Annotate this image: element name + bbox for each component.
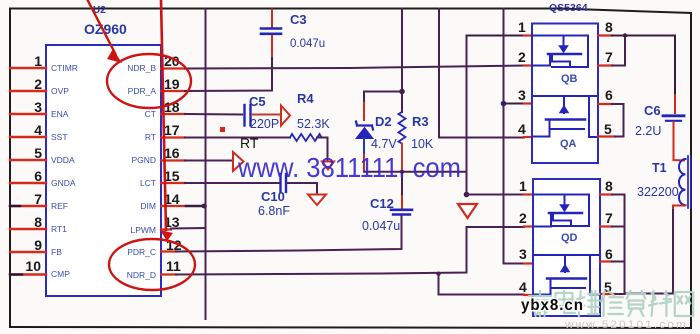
wire T1 bottom to U4 pin5 [673, 206, 685, 211]
svg-text:www.520101.com: www.520101.com [564, 319, 688, 331]
svg-text:T1: T1 [652, 161, 667, 175]
U4 right-side wires pins 8,7,6,5 [600, 195, 625, 295]
annotation arrowhead vertical [160, 230, 173, 241]
svg-text:C3: C3 [290, 12, 307, 27]
svg-text:GNDA: GNDA [51, 178, 76, 188]
svg-text:R3: R3 [412, 114, 429, 129]
wire to U3 pin3 [504, 103, 525, 105]
wire pin12 PDR_C to C12 [161, 250, 176, 252]
wire C10 to gnd [288, 183, 318, 193]
svg-text:8: 8 [605, 178, 613, 194]
svg-text:10K: 10K [411, 137, 434, 151]
svg-text:3: 3 [34, 99, 42, 115]
dual MOSFET U4 (bottom) [519, 178, 613, 316]
wire to U4 pin1 [467, 194, 525, 196]
svg-text:OVP: OVP [51, 86, 69, 96]
wire pin16 PGND [161, 159, 185, 161]
annotation vertical red line [161, 0, 166, 231]
svg-text:NDR_B: NDR_B [127, 63, 156, 73]
svg-text:220P: 220P [250, 117, 279, 131]
wire pin8 down to C6 [674, 36, 676, 96]
svg-text:2: 2 [519, 210, 527, 226]
svg-text:C12: C12 [370, 196, 394, 211]
pin 5 VDDA stub [10, 159, 46, 161]
gnd arrow after C10 [308, 195, 326, 206]
svg-text:4: 4 [518, 121, 526, 137]
left pin names [51, 63, 78, 279]
svg-text:4: 4 [34, 122, 42, 138]
port arrow PGND [233, 152, 244, 171]
annotation arrowhead diagonal [107, 49, 122, 63]
right pin numbers 20-11 [164, 53, 182, 274]
U3 pin numbers [518, 19, 613, 137]
U3 right-side wires pins 6,5 [598, 104, 624, 137]
svg-text:1: 1 [518, 19, 526, 35]
svg-text:52.3K: 52.3K [297, 117, 330, 131]
zener D2 4.7V [356, 92, 397, 172]
svg-text:REF: REF [51, 201, 68, 211]
vertical wire x=503 top rail to U4 pin3 [504, 9, 525, 264]
capacitor C6 2.2U [635, 103, 684, 138]
svg-text:www. 3811111. com: www. 3811111. com [237, 152, 461, 183]
wire pin11 NDR_D to chip U4 [161, 273, 176, 275]
svg-text:R4: R4 [297, 91, 314, 106]
dual MOSFET U3 QS5364 (top) [518, 2, 613, 163]
svg-text:CT: CT [145, 109, 156, 119]
svg-text:17: 17 [164, 122, 180, 138]
gnd arrow below U4 pin1 node [458, 204, 477, 218]
pin 2 OVP stub [10, 90, 46, 92]
svg-text:QD: QD [561, 232, 578, 244]
svg-text:PDR_C: PDR_C [127, 247, 156, 257]
annotation diagonal red line [86, 0, 116, 55]
svg-text:DIM: DIM [140, 201, 156, 211]
svg-text:0.047u: 0.047u [290, 38, 325, 50]
wire pin20 NDR_B to chip U3 pin2 [161, 66, 532, 69]
junction NDR_D branch [436, 272, 440, 276]
pin 10 CMP stub [10, 273, 46, 275]
pin 4 SST stub [10, 136, 46, 138]
svg-text:1: 1 [34, 53, 42, 69]
svg-text:2: 2 [518, 49, 526, 65]
svg-text:322200: 322200 [637, 185, 679, 199]
wire pin19 PDR_A to C3 [161, 35, 272, 91]
junction DIM [202, 204, 207, 209]
down arrow under R4 [322, 162, 334, 170]
junction U4 pin1 node [464, 192, 470, 198]
svg-text:C10: C10 [261, 189, 285, 204]
capacitor C5 220P [245, 94, 281, 131]
pin 7 REF stub [10, 205, 46, 207]
annotation ellipse pins 19-20 [107, 54, 191, 108]
svg-text:LPWM: LPWM [131, 225, 157, 235]
small red tick [220, 127, 225, 132]
wire pin14 DIM [161, 205, 186, 207]
annotation ellipse pins 11-12 [109, 239, 195, 290]
wire D2/R3 bottom rail [364, 171, 467, 173]
capacitor C12 0.047u [362, 172, 412, 233]
svg-text:10: 10 [25, 258, 41, 274]
pin 9 FB stub [10, 251, 46, 253]
U3 right-side wires pins 8,7 [598, 33, 675, 65]
svg-text:VDDA: VDDA [51, 155, 75, 165]
svg-text:16: 16 [164, 145, 180, 161]
junction R3 top [399, 89, 405, 95]
vertical wire x=439 top rail to U3 pin4 [439, 9, 524, 138]
U4 internal rail [534, 254, 599, 256]
svg-text:SST: SST [51, 132, 68, 142]
capacitor C3 [261, 10, 325, 51]
svg-text:ybx8.cn: ybx8.cn [521, 297, 584, 314]
wire D2 R3 top link [364, 91, 402, 93]
mosfet QA [533, 96, 597, 137]
U3 internal rail [533, 95, 597, 97]
svg-text:6: 6 [34, 168, 42, 184]
svg-text:PDR_A: PDR_A [128, 86, 157, 96]
svg-text:6.8nF: 6.8nF [258, 204, 290, 218]
svg-text:CTIMR: CTIMR [51, 63, 78, 73]
junction C12 top [400, 170, 404, 174]
watermark chinese bottom right [529, 291, 693, 331]
right pin names [127, 63, 157, 280]
svg-text:19: 19 [164, 76, 180, 92]
svg-text:RT1: RT1 [51, 224, 67, 234]
pin 3 ENA stub [10, 113, 46, 115]
wire U3 pin1 feed [467, 35, 525, 37]
svg-text:C6: C6 [644, 103, 661, 118]
svg-text:ENA: ENA [51, 109, 69, 119]
svg-text:11: 11 [166, 258, 181, 274]
svg-text:6: 6 [605, 87, 613, 103]
wire pin13 LPWM [161, 228, 171, 230]
junction U3 pin3 [501, 101, 507, 107]
svg-text:4.7V: 4.7V [371, 137, 397, 151]
wire pin15 LCT to C10 [161, 182, 185, 184]
svg-text:6: 6 [605, 246, 613, 262]
svg-text:8: 8 [34, 214, 42, 230]
svg-text:PGND: PGND [131, 155, 156, 165]
wire pin17 RT to R4 [161, 136, 185, 138]
mosfet QD [534, 195, 589, 227]
svg-text:7: 7 [605, 210, 613, 226]
mosfet QC [534, 255, 598, 295]
capacitor C10 6.8nF [258, 174, 290, 218]
svg-text:QA: QA [560, 138, 577, 150]
wire branch to U4 pin4 [439, 274, 525, 295]
left pin numbers 1-10 [25, 53, 42, 274]
svg-text:8: 8 [605, 19, 613, 35]
svg-text:CMP: CMP [51, 269, 70, 279]
svg-text:7: 7 [605, 49, 613, 65]
svg-text:4: 4 [519, 279, 527, 295]
port arrow on CT line [281, 106, 290, 126]
svg-text:9: 9 [34, 237, 42, 253]
svg-text:RT: RT [240, 135, 259, 151]
vertical wire x=402 top rail to D2/R3 [401, 9, 403, 92]
wire R4 to down-arrow [317, 138, 328, 162]
resistor R3 10K [399, 92, 434, 172]
svg-text:QS5364: QS5364 [549, 2, 588, 14]
svg-text:3: 3 [518, 87, 526, 103]
resistor R4 52.3K [290, 91, 330, 141]
IC U2 OZ960 box [46, 45, 161, 296]
mosfet QB [533, 36, 588, 68]
svg-text:RT: RT [145, 132, 156, 142]
wire C6 to T1 top [674, 122, 685, 161]
svg-text:NDR_D: NDR_D [127, 270, 156, 280]
svg-text:C5: C5 [249, 94, 266, 109]
svg-text:7: 7 [34, 191, 42, 207]
transformer T1 primary [637, 156, 691, 208]
svg-text:2.2U: 2.2U [635, 124, 661, 138]
svg-text:1: 1 [519, 178, 527, 194]
svg-text:FB: FB [51, 247, 62, 257]
svg-text:15: 15 [164, 168, 180, 184]
pin 6 GNDA stub [10, 182, 46, 184]
svg-text:5: 5 [34, 145, 42, 161]
pin 1 CTIMR stub [10, 67, 46, 69]
svg-text:2: 2 [34, 76, 42, 92]
svg-text:5: 5 [604, 121, 612, 137]
svg-text:LCT: LCT [140, 178, 156, 188]
svg-text:3: 3 [519, 246, 527, 262]
vertical wire x=466 [466, 36, 468, 195]
wire pin18 CT to C5 [161, 113, 185, 115]
vertical bus x=205 [205, 9, 207, 320]
U4 pin numbers [519, 178, 613, 295]
svg-text:QB: QB [561, 73, 578, 85]
svg-text:0.047u: 0.047u [362, 219, 400, 233]
pin 8 RT1 stub [10, 228, 46, 230]
svg-text:D2: D2 [375, 114, 392, 129]
